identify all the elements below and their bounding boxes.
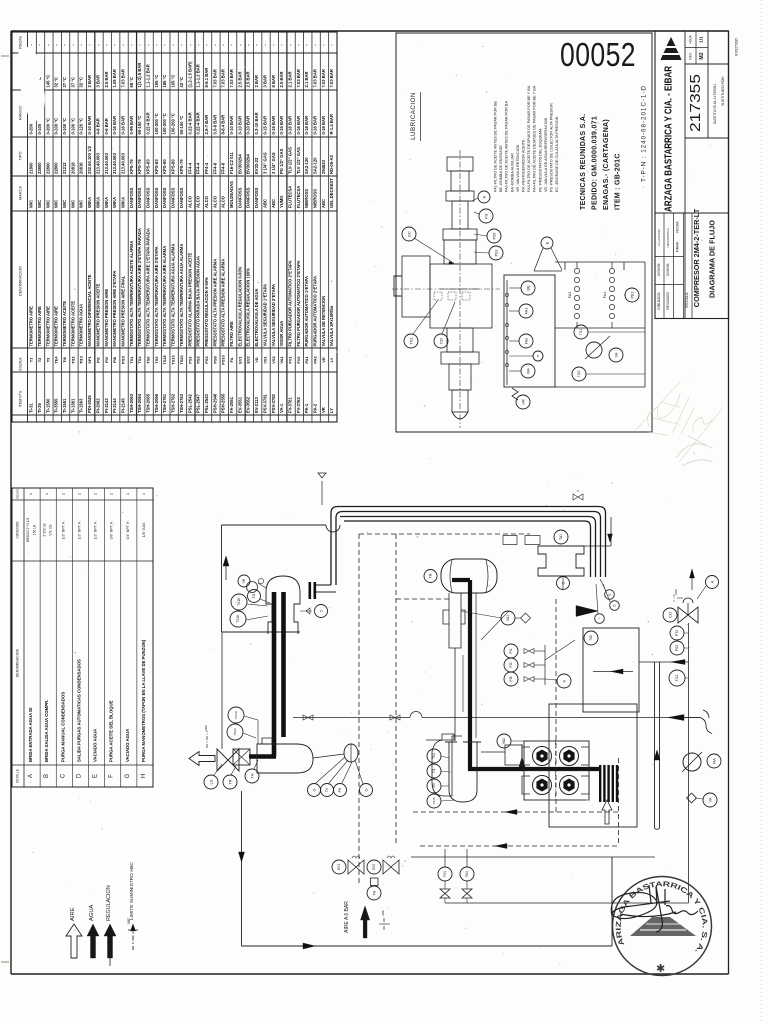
svg-text:TI1: TI1 <box>432 768 436 773</box>
svg-text:1.1-1.2 BAR: 1.1-1.2 BAR <box>146 64 151 87</box>
svg-text:2.5 BAR: 2.5 BAR <box>104 71 109 87</box>
svg-text:EV-3552: EV-3552 <box>246 396 251 413</box>
svg-text:PSV-3781: PSV-3781 <box>262 393 267 413</box>
svg-text:232.50.100 1/2: 232.50.100 1/2 <box>87 145 92 174</box>
pressure regulator <box>683 753 701 771</box>
svg-text:TERMOSTATO ALTA TEMPERATURA AG: TERMOSTATO ALTA TEMPERATURA AGUA ALARMA <box>171 244 176 347</box>
svg-text:MANOMETRO DIFERENCIAL ACEITE: MANOMETRO DIFERENCIAL ACEITE <box>87 274 92 346</box>
svg-text:155 °C: 155 °C <box>154 75 159 88</box>
svg-text:TERMOMETRO AIRE: TERMOMETRO AIRE <box>29 306 34 347</box>
svg-text:G: G <box>125 773 131 778</box>
svg-text:NIBROSS: NIBROSS <box>313 189 318 208</box>
svg-text:BV300294: BV300294 <box>246 154 251 174</box>
engine block outline <box>524 741 589 800</box>
E D I bubbles <box>605 590 615 600</box>
svg-text:ENAGAS.- (CARTAGENA): ENAGAS.- (CARTAGENA) <box>603 119 610 210</box>
svg-text:SUSTITUIDO POR:: SUSTITUIDO POR: <box>721 76 725 106</box>
svg-text:PURGA MANOMETROS (TAPON EN LA: PURGA MANOMETROS (TAPON EN LA LLAVE DE P… <box>141 639 146 762</box>
svg-text:VACIADO AGUA: VACIADO AGUA <box>125 729 130 762</box>
TS20/PS19 bubbles <box>228 707 244 723</box>
svg-text:CO: CO <box>438 338 443 344</box>
big discharge arrow <box>576 606 598 617</box>
svg-text:ELECTROVALVULA REGULACION 100: ELECTROVALVULA REGULACION 100% <box>246 268 251 347</box>
svg-text:REVISADO: REVISADO <box>666 292 670 310</box>
svg-text:22800: 22800 <box>45 162 50 174</box>
svg-text:ALCO: ALCO <box>221 195 226 208</box>
2nd stage head <box>538 546 584 576</box>
fecha/firma mini table <box>663 213 665 319</box>
svg-text:KPS-80: KPS-80 <box>162 159 167 174</box>
svg-text:VR -VALVULA RETENCION: VR -VALVULA RETENCION <box>516 144 520 192</box>
svg-text:8 BAR: 8 BAR <box>271 75 276 88</box>
svg-text:0.5-8 BAR: 0.5-8 BAR <box>212 115 217 135</box>
svg-text:PI-2143: PI-2143 <box>104 398 109 413</box>
double riser lines <box>654 662 656 828</box>
svg-text:VR: VR <box>242 578 246 583</box>
svg-text:PA1: PA1 <box>465 871 469 877</box>
svg-text:TERMOSTATO ALTA TEMPERATURA AI: TERMOSTATO ALTA TEMPERATURA AIRE 2ªETAPA… <box>137 228 142 346</box>
svg-text:BV300294: BV300294 <box>237 154 242 174</box>
E instrument <box>541 237 553 249</box>
svg-text:ALCO: ALCO <box>196 195 201 208</box>
compressor silhouette (vertical machine) <box>394 157 492 419</box>
svg-text:DANFOSS: DANFOSS <box>179 187 184 208</box>
svg-text:PS1: PS1 <box>187 355 192 363</box>
funnel under E <box>534 248 543 271</box>
svg-text:100-200 °C: 100-200 °C <box>171 113 176 134</box>
svg-text:A: A <box>28 774 34 778</box>
svg-text:PE1: PE1 <box>630 292 634 299</box>
svg-text:BRIDA ENTRADA AGUA DI: BRIDA ENTRADA AGUA DI <box>28 707 33 762</box>
svg-text:EV1: EV1 <box>337 864 341 870</box>
svg-text:PDI-2045: PDI-2045 <box>87 395 92 413</box>
svg-text:RANGO: RANGO <box>19 106 23 120</box>
svg-text:0-10 BAR: 0-10 BAR <box>237 116 242 135</box>
svg-text:7.03 BAR: 7.03 BAR <box>229 69 234 87</box>
svg-text:EV2: EV2 <box>372 864 376 870</box>
svg-text:TERMOMETRO AGUA: TERMOMETRO AGUA <box>79 304 84 347</box>
svg-text:ESCALA: ESCALA <box>19 357 23 371</box>
svg-text:WIC: WIC <box>70 200 75 208</box>
svg-text:TSH-2063: TSH-2063 <box>129 393 134 413</box>
stamp trapezoid logo <box>630 917 696 936</box>
svg-text:3/8” NPT H.: 3/8” NPT H. <box>110 521 114 540</box>
svg-text:WIKA: WIKA <box>104 197 109 208</box>
svg-text:FECHA: FECHA <box>676 221 680 233</box>
svg-text:TS18: TS18 <box>162 355 167 365</box>
svg-text:0-10 BAR: 0-10 BAR <box>229 116 234 135</box>
svg-text:TS4: TS4 <box>432 753 436 759</box>
svg-text:E: E <box>608 593 612 595</box>
svg-text:2 BAR: 2 BAR <box>87 75 92 88</box>
line break symbol right end <box>700 710 712 734</box>
svg-text:37 °C: 37 °C <box>62 77 67 88</box>
svg-text:DANFOSS: DANFOSS <box>237 187 242 208</box>
svg-text:PRESOSTATO ALARMA BAJA PRESION: PRESOSTATO ALARMA BAJA PRESION ACEITE <box>187 252 192 346</box>
svg-text:PS1: PS1 <box>494 250 498 257</box>
svg-text:0-18 BAR: 0-18 BAR <box>304 116 309 135</box>
svg-text:PURGA MANUAL CONDENSADOS: PURGA MANUAL CONDENSADOS <box>60 692 65 762</box>
svg-text:2.5 BAR: 2.5 BAR <box>246 71 251 87</box>
svg-text:0.3-10 BAR: 0.3-10 BAR <box>254 112 259 134</box>
svg-text:VA2: VA2 <box>502 738 506 744</box>
svg-text:PURGA ACEITE DEL BLOQUE: PURGA ACEITE DEL BLOQUE <box>109 700 114 762</box>
svg-text:1/1: 1/1 <box>699 36 704 43</box>
svg-text:I: I <box>598 618 602 619</box>
svg-text:7.03 BAR: 7.03 BAR <box>329 69 334 87</box>
svg-text:FA2: FA2 <box>524 338 528 344</box>
svg-text:PIEZAS: PIEZAS <box>16 489 20 499</box>
svg-text:VA: VA <box>613 352 618 357</box>
lubrication detail box <box>396 33 652 432</box>
svg-text:MARCA: MARCA <box>19 186 23 200</box>
svg-text:VALVULA SEGURIDAD 1ªETAPA: VALVULA SEGURIDAD 1ªETAPA <box>262 284 267 347</box>
svg-text:42 °C: 42 °C <box>179 77 184 88</box>
svg-text:FA3-FILTRO DE ACEITE DESPUES D: FA3-FILTRO DE ACEITE DESPUES DE PASAR PO… <box>527 85 531 192</box>
svg-text:TS1: TS1 <box>129 356 134 364</box>
registration ticks <box>1 55 9 57</box>
svg-text:PEDIDO: GM.0000.039.071: PEDIDO: GM.0000.039.071 <box>592 116 599 210</box>
svg-text:FV1: FV1 <box>287 356 292 364</box>
signature scribble <box>611 885 698 932</box>
svg-text:EV2: EV2 <box>246 355 251 363</box>
svg-text:VR: VR <box>520 399 525 405</box>
svg-text:60-150 °C: 60-150 °C <box>137 116 142 135</box>
svg-text:2”150 LB: 2”150 LB <box>42 524 46 537</box>
svg-text:TERMOSTATO ALTA TEMPERATURA AI: TERMOSTATO ALTA TEMPERATURA AIRE 1ªETAPA… <box>146 228 151 346</box>
svg-text:WIC: WIC <box>37 200 42 208</box>
svg-text:WIKA: WIKA <box>120 197 125 208</box>
title block <box>655 31 729 319</box>
svg-text:1: 1 <box>45 493 49 495</box>
svg-text:PSV-3782: PSV-3782 <box>271 393 276 413</box>
svg-text:VA-1: VA-1 <box>279 403 284 413</box>
TI3 bubble <box>248 590 261 603</box>
svg-text:PRESOSTATO ALTA PRESION AIRE: PRESOSTATO ALTA PRESION AIRE ALARMA <box>221 259 226 347</box>
svg-text:213.40.063: 213.40.063 <box>112 152 117 174</box>
svg-text:VS1: VS1 <box>262 355 267 363</box>
svg-text:HOJA: HOJA <box>689 34 693 43</box>
svg-text:213.40.063: 213.40.063 <box>95 152 100 174</box>
svg-text:ABC: ABC <box>204 724 208 731</box>
hot pipe from vessel to cooler (thick black) <box>452 578 470 582</box>
dashed regulation lines <box>358 534 360 884</box>
svg-text:TI10: TI10 <box>577 371 581 378</box>
svg-text:VA1: VA1 <box>506 615 510 621</box>
svg-text:TERMOMETRO ACEITE: TERMOMETRO ACEITE <box>70 301 75 347</box>
svg-text:TI-1551: TI-1551 <box>62 398 67 413</box>
svg-text:SA2-120: SA2-120 <box>304 157 309 174</box>
svg-text:0-15 BAR: 0-15 BAR <box>271 116 276 135</box>
VR check valve w/ break <box>516 395 530 409</box>
svg-text:2.5 BAR: 2.5 BAR <box>237 71 242 87</box>
svg-text:TERMOMETRO AIRE: TERMOMETRO AIRE <box>54 306 59 347</box>
svg-text:SALIDA PURGAS AUTOMATICAS COND: SALIDA PURGAS AUTOMATICAS CONDENSADOS <box>76 659 81 762</box>
svg-text:EV1: EV1 <box>237 355 242 363</box>
svg-text:0-16 BAR: 0-16 BAR <box>313 116 318 135</box>
svg-text:VA1: VA1 <box>279 356 284 364</box>
svg-text:EC -ENGRASE DE CULATA ALTA PRE: EC -ENGRASE DE CULATA ALTA PRESION <box>555 116 559 192</box>
svg-text:150 LB: 150 LB <box>33 525 37 535</box>
svg-text:H: H <box>141 774 147 778</box>
svg-text:32 °C: 32 °C <box>54 77 59 88</box>
svg-text:217355: 217355 <box>688 74 704 132</box>
svg-text:TI-1561: TI-1561 <box>70 398 75 413</box>
svg-text:M2: M2 <box>699 52 705 59</box>
connection lines right side <box>639 661 689 663</box>
svg-text:TLV 1/2” GAS: TLV 1/2” GAS <box>296 147 301 174</box>
svg-text:MOLDEADAS: MOLDEADAS <box>229 181 234 208</box>
svg-text:TS4: TS4 <box>137 356 142 364</box>
svg-text:TSH-2763: TSH-2763 <box>179 393 184 413</box>
oil pump <box>344 744 358 762</box>
svg-text:0-200: 0-200 <box>29 123 34 134</box>
svg-text:TI8: TI8 <box>62 356 67 362</box>
svg-text:TERMOSTATO ALTA TEMPERATURA AG: TERMOSTATO ALTA TEMPERATURA AGUA ALARMA <box>179 244 184 347</box>
svg-text:TSH-2066: TSH-2066 <box>154 393 159 413</box>
svg-text:294633: 294633 <box>321 159 326 174</box>
svg-text:1.1-1.2 BAR: 1.1-1.2 BAR <box>196 64 201 87</box>
cylinder head valve clusters <box>533 747 552 766</box>
svg-text:RJ31270615: RJ31270615 <box>735 38 739 56</box>
svg-text:100-200 °C: 100-200 °C <box>154 113 159 134</box>
TA bubble + square <box>371 878 379 886</box>
svg-text:22800: 22800 <box>54 162 59 174</box>
svg-text:DANFOSS: DANFOSS <box>171 187 176 208</box>
union fitting on pipe <box>573 494 583 500</box>
svg-text:DANFOSS: DANFOSS <box>154 187 159 208</box>
svg-text:FF4-8: FF4-8 <box>221 162 226 174</box>
svg-text:LS: LS <box>208 779 213 784</box>
svg-text:FA: FA <box>229 357 234 362</box>
svg-text:PS5: PS5 <box>492 233 496 240</box>
svg-text:FF4-4: FF4-4 <box>187 162 192 174</box>
svg-text:DANFOSS: DANFOSS <box>162 187 167 208</box>
svg-text:FILTRO PURGADOR AUTOMATICO 2ª: FILTRO PURGADOR AUTOMATICO 2ªETAPA <box>296 260 301 346</box>
svg-text:1: 1 <box>126 493 130 495</box>
svg-text:PS10: PS10 <box>221 355 226 365</box>
crankcase sump <box>257 744 313 773</box>
svg-text:PA2: PA2 <box>313 356 318 364</box>
svg-text:0-16 BAR: 0-16 BAR <box>287 116 292 135</box>
svg-text:KPS-79: KPS-79 <box>137 159 142 174</box>
svg-text:PS19: PS19 <box>234 711 238 719</box>
svg-text:VA: VA <box>707 797 712 802</box>
oil cooler regulator <box>586 342 602 358</box>
svg-text:VR: VR <box>321 407 326 413</box>
control valve top right <box>663 608 677 622</box>
svg-text:1/2” NPT H.: 1/2” NPT H. <box>61 521 65 540</box>
e vent <box>533 351 543 361</box>
svg-text:1/2” NPT H.: 1/2” NPT H. <box>94 521 98 540</box>
svg-text:EV-2113: EV-2113 <box>254 396 259 413</box>
svg-text:ITEM : GB-201C: ITEM : GB-201C <box>615 153 622 210</box>
svg-text:ALCO: ALCO <box>204 195 209 208</box>
title texts <box>685 212 729 214</box>
svg-text:WIKA: WIKA <box>112 197 117 208</box>
H bubble <box>557 674 571 688</box>
svg-text:TERMOSTATO ALTA TEMPERATURA AC: TERMOSTATO ALTA TEMPERATURA ACEITE ALARM… <box>129 241 134 347</box>
vent valve above pipe corner <box>321 481 323 505</box>
svg-text:TS9: TS9 <box>154 356 159 364</box>
svg-text:ARZAGA BASTARRICA Y CIA. - EIB: ARZAGA BASTARRICA Y CIA. - EIBAR <box>664 65 675 212</box>
svg-text:TA1: TA1 <box>559 534 563 540</box>
svg-text:ITEM Nº'S: ITEM Nº'S <box>19 390 23 407</box>
svg-text:H: H <box>481 195 486 198</box>
solenoid valves row <box>332 860 346 874</box>
svg-text:7.03 BAR: 7.03 BAR <box>313 69 318 87</box>
svg-text:ABC: ABC <box>271 199 276 208</box>
svg-text:0-10 BAR: 0-10 BAR <box>246 116 251 135</box>
svg-text:SP1: SP1 <box>87 355 92 363</box>
right column TI11 RA VA TI10 <box>644 262 646 387</box>
svg-text:3 BAR: 3 BAR <box>95 75 100 88</box>
svg-text:TS6: TS6 <box>146 356 151 364</box>
svg-text:EC: EC <box>406 231 411 237</box>
instrument list table <box>12 32 337 422</box>
svg-text:PA-2: PA-2 <box>313 403 318 413</box>
svg-text:AIRE A 6 BAR: AIRE A 6 BAR <box>344 901 350 933</box>
VA1 bubble <box>501 611 515 625</box>
svg-text:TI8: TI8 <box>429 573 433 578</box>
svg-text:PSL-2547: PSL-2547 <box>196 393 201 413</box>
svg-text:PIEZAS: PIEZAS <box>19 36 23 49</box>
svg-text:0-100: 0-100 <box>37 123 42 134</box>
svg-text:FF4-4: FF4-4 <box>204 162 209 174</box>
machine centrelines <box>459 150 461 428</box>
svg-text:DANFOSS: DANFOSS <box>146 187 151 208</box>
PT2 PS3 TI12 column <box>688 623 690 903</box>
svg-text:1: 1 <box>29 493 33 495</box>
svg-text:68 °C: 68 °C <box>129 77 134 88</box>
svg-text:ABC: ABC <box>674 588 678 595</box>
svg-text:ALCO: ALCO <box>212 195 217 208</box>
H PI1 PS5 PS1 instruments <box>478 191 490 203</box>
svg-text:E: E <box>544 241 549 244</box>
TS1 CO instruments <box>404 334 418 348</box>
svg-text:2: 2 <box>61 493 65 495</box>
svg-text:B: B <box>44 774 50 778</box>
svg-text:FA1: FA1 <box>524 308 528 314</box>
discharge pipe bundle (double lines) <box>331 507 606 586</box>
svg-text:TS9: TS9 <box>432 783 436 789</box>
svg-text:FF4-4: FF4-4 <box>196 162 201 174</box>
svg-text:CONEXION: CONEXION <box>16 521 20 539</box>
svg-text:KPS-79: KPS-79 <box>179 159 184 174</box>
svg-text:VS2: VS2 <box>271 355 276 363</box>
svg-text:MANOMETRO PRESION AIRE: MANOMETRO PRESION AIRE <box>104 289 109 347</box>
svg-text:TE4: TE4 <box>54 356 59 364</box>
svg-text:PS3: PS3 <box>204 355 209 363</box>
line y=857 <box>411 856 655 858</box>
svg-text:VALVULA 3Px15Rtba: VALVULA 3Px15Rtba <box>329 305 334 346</box>
svg-text:FLUTECSA: FLUTECSA <box>287 186 292 208</box>
svg-text:KPS-80: KPS-80 <box>171 159 176 174</box>
svg-text:2: 2 <box>110 493 114 495</box>
PE1 <box>625 288 639 302</box>
svg-text:1(1-2).5 BAR: 1(1-2).5 BAR <box>137 63 142 88</box>
company round stamp <box>613 877 712 976</box>
svg-text:DENOMINACION: DENOMINACION <box>19 266 23 296</box>
svg-text:TI-3555: TI-3555 <box>54 398 59 413</box>
svg-text:TI13: TI13 <box>79 355 84 364</box>
svg-text:TERMOSTATO ALTA TEMPERATURA AI: TERMOSTATO ALTA TEMPERATURA AIRE 2ªETAPA <box>154 246 159 346</box>
svg-text:TS6: TS6 <box>589 635 593 641</box>
svg-text:0-15 BAR: 0-15 BAR <box>279 116 284 135</box>
svg-text:0-16 BAR: 0-16 BAR <box>112 116 117 135</box>
svg-text:3 1/4” GAS: 3 1/4” GAS <box>262 152 267 174</box>
svg-text:DIBUJADO: DIBUJADO <box>657 292 661 310</box>
svg-text:MANOMETRO PRESION AIRE FINAL: MANOMETRO PRESION AIRE FINAL <box>120 275 125 346</box>
svg-text:TS18: TS18 <box>236 615 240 623</box>
svg-text:7.03 BAR: 7.03 BAR <box>321 69 326 87</box>
svg-text:PSL-2542: PSL-2542 <box>187 393 192 413</box>
rev/hoja cells <box>685 47 708 49</box>
svg-text:PI10: PI10 <box>120 356 125 364</box>
svg-text:BRIDA SALIDA AGUA COMPR.: BRIDA SALIDA AGUA COMPR. <box>44 700 49 762</box>
svg-text:2.1 BAR: 2.1 BAR <box>287 71 292 87</box>
svg-text:3/4” NPT H.: 3/4” NPT H. <box>126 521 130 540</box>
svg-text:FA4: FA4 <box>603 292 607 298</box>
long control line y=717.5 <box>293 717 410 719</box>
svg-text:TR: TR <box>227 779 232 784</box>
svg-text:EV-3551: EV-3551 <box>237 396 242 413</box>
svg-text:KPS-79: KPS-79 <box>129 159 134 174</box>
svg-text:YUMG: YUMG <box>279 195 284 208</box>
svg-text:8-8.4 BAR: 8-8.4 BAR <box>221 115 226 135</box>
svg-text:DIAGRAMA DE FLUJO: DIAGRAMA DE FLUJO <box>708 220 717 298</box>
svg-text:TI4: TI4 <box>250 773 254 778</box>
svg-text:PI1: PI1 <box>484 213 488 218</box>
svg-text:WIC: WIC <box>79 200 84 208</box>
svg-text:PSL-2543: PSL-2543 <box>204 393 209 413</box>
svg-text:20818: 20818 <box>70 162 75 174</box>
scan page edge dotted <box>760 0 762 1024</box>
svg-text:PG 1/2” GAS: PG 1/2” GAS <box>279 148 284 174</box>
svg-text:TERMOMETRO ACEITE: TERMOMETRO ACEITE <box>62 301 67 347</box>
svg-text:100-200 °C: 100-200 °C <box>162 113 167 134</box>
svg-text:SUSTITUYE AL 217355N1: SUSTITUYE AL 217355N1 <box>713 84 717 125</box>
FA2 filter <box>519 334 533 348</box>
svg-text:ABC: ABC <box>262 199 267 208</box>
svg-text:PS2: PS2 <box>196 355 201 363</box>
svg-text:ALCO: ALCO <box>187 195 192 208</box>
engine crank block <box>426 734 462 796</box>
svg-text:TS19: TS19 <box>171 355 176 365</box>
svg-text:LUBRICACION: LUBRICACION <box>410 92 417 140</box>
svg-text:105 °C: 105 °C <box>171 75 176 88</box>
svg-text:ESCALA: ESCALA <box>685 292 689 307</box>
svg-text:32 °C: 32 °C <box>79 77 84 88</box>
VR bubbles <box>238 575 250 587</box>
svg-text:VR: VR <box>321 357 326 363</box>
svg-text:1/8” GAS: 1/8” GAS <box>142 522 146 537</box>
svg-text:145 °C: 145 °C <box>45 75 50 88</box>
svg-text:FILTRO AIRE: FILTRO AIRE <box>229 321 234 347</box>
svg-text:10/06/98: 10/06/98 <box>657 263 661 276</box>
bottom return line <box>445 902 689 904</box>
svg-text:BE -BOMBA DE ENGRASE: BE -BOMBA DE ENGRASE <box>499 145 503 192</box>
svg-text:PA1: PA1 <box>304 356 309 364</box>
svg-text:PI1: PI1 <box>95 356 100 363</box>
company logo <box>667 37 676 46</box>
svg-text:C: C <box>319 609 323 612</box>
svg-text:TS1: TS1 <box>408 337 413 345</box>
svg-text:LY: LY <box>329 408 334 413</box>
svg-text:0-16 BAR: 0-16 BAR <box>296 116 301 135</box>
svg-text:E: E <box>93 774 99 778</box>
svg-text:185 °C: 185 °C <box>162 75 167 88</box>
